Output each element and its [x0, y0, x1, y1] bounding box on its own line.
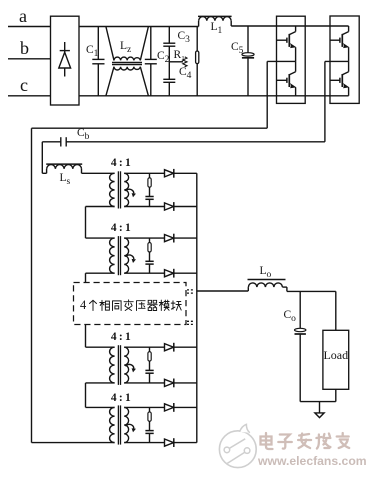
transistor Q3 (U2 top IGBT) — [330, 26, 349, 61]
choke Lz core — [112, 63, 142, 65]
wire T2 secondary top lead — [124, 237, 164, 239]
label Load — [323, 349, 348, 361]
wire return top edge — [32, 127, 268, 129]
dashed stub to bus (upper) — [187, 290, 195, 293]
transistor Q4 (U2 bottom IGBT) — [330, 61, 349, 95]
label C3 — [178, 31, 190, 46]
snubber capacitor C1s — [145, 197, 153, 207]
label C4 — [179, 67, 191, 82]
transistor Q1 (U1 top IGBT) — [277, 26, 297, 61]
label c — [20, 76, 28, 94]
capacitor C3 — [163, 27, 175, 62]
transformer T4 secondary winding — [124, 407, 128, 442]
node U2 midpoint wire — [325, 60, 349, 62]
snubber resistor R4s — [148, 407, 151, 430]
label a — [19, 7, 27, 25]
transformer T1 secondary winding — [124, 173, 128, 206]
capacitor C2 — [145, 27, 157, 96]
wire Cb line — [66, 141, 325, 143]
wire bus to Lo — [197, 290, 249, 292]
snubber capacitor C2s — [145, 261, 153, 273]
input line c (wire) — [8, 95, 51, 97]
diode D3a (top) — [165, 343, 197, 352]
transistor Q2 (U1 bottom IGBT) — [277, 61, 297, 95]
wire T1 secondary top lead — [124, 172, 164, 174]
label 4:1 — [111, 332, 131, 344]
transformer T2 center-tap arrow — [125, 255, 136, 263]
capacitor C1 — [92, 27, 104, 96]
inductor Ls — [42, 164, 82, 173]
node U1 midpoint wire — [267, 60, 295, 62]
transformer T2 primary winding — [110, 238, 115, 273]
wire load bottom — [300, 401, 336, 403]
wire rectified bus — [196, 173, 198, 442]
transformer T1 center-tap arrow — [125, 189, 136, 197]
wire top rail (rectifier to L1) — [79, 26, 199, 28]
inverter leg module U2 box — [330, 16, 359, 103]
transformer T4 primary winding — [110, 407, 115, 442]
label C2 — [157, 51, 169, 66]
bridge rectifier box — [51, 16, 80, 105]
wire T2 secondary bottom lead — [124, 272, 164, 274]
wire bottom rail — [79, 95, 349, 97]
label 4:1 — [111, 393, 131, 405]
inductor Lo — [248, 280, 287, 292]
transformer T3 core — [118, 345, 120, 385]
label Lo — [260, 266, 272, 281]
transformer T4 center-tap arrow — [125, 424, 136, 432]
snubber resistor R1s — [148, 173, 151, 196]
label Co — [284, 310, 296, 325]
wire top rail (L1 to inverter) — [248, 25, 349, 27]
wire T2 primary to module box — [86, 273, 115, 282]
input line a (wire) — [8, 26, 51, 28]
transformer T3 center-tap arrow — [125, 364, 136, 372]
resistor R1 — [169, 57, 187, 67]
label www.elecfans.com — [258, 455, 367, 467]
diode D1b (bottom) — [165, 202, 197, 211]
inductor L1 — [198, 16, 248, 26]
wire module box to T3 — [86, 325, 115, 348]
rectifier diode symbol — [59, 42, 71, 77]
wire Ls to T1 — [82, 172, 115, 174]
wire T3 secondary bottom lead — [124, 382, 164, 384]
snubber resistor R3s — [148, 347, 151, 370]
ground — [315, 402, 324, 418]
transformer T4 core — [118, 405, 120, 444]
dashed box: 4 identical transformer modules — [74, 283, 187, 325]
input line b (wire) — [8, 58, 51, 60]
label 4:1 — [111, 158, 131, 170]
wire T1 secondary bottom lead — [124, 206, 164, 208]
label L1 — [211, 22, 223, 37]
dashed stub to bus (lower) — [187, 321, 195, 324]
wire U2 midpoint drop — [324, 61, 326, 141]
wire Cb to Ls — [41, 142, 43, 174]
choke Lz bottom winding — [106, 67, 148, 96]
inverter leg module U1 box — [277, 16, 306, 103]
capacitor Cb — [42, 137, 66, 146]
transformer T1 primary winding — [110, 173, 115, 206]
label 4:1 — [111, 223, 131, 235]
capacitor Co — [295, 291, 306, 401]
watermark logo circle — [219, 424, 256, 467]
label b — [20, 39, 29, 57]
label: 4 identical transformer modules (CJK) — [90, 300, 182, 311]
wire T3-T4 primary link — [86, 383, 115, 408]
capacitor C5 — [242, 26, 254, 96]
diode D2a (top) — [165, 234, 197, 243]
transformer T3 primary winding — [110, 347, 115, 383]
capacitor C4 — [163, 62, 175, 96]
label Cb — [77, 128, 89, 143]
wire T1-T2 primary link — [86, 207, 115, 239]
transformer T1 core — [118, 171, 120, 208]
label R1 — [174, 50, 185, 63]
snubber capacitor C4s — [145, 431, 153, 443]
wire Lo to load — [287, 290, 336, 292]
label C5 — [231, 42, 243, 57]
transformer T2 core — [118, 236, 120, 275]
wire return bottom edge — [32, 442, 115, 444]
wire U1 midpoint drop — [266, 61, 268, 128]
diode D4a (top) — [165, 403, 197, 412]
snubber capacitor C3s — [145, 370, 153, 383]
wire T3 secondary top lead — [124, 346, 164, 348]
label 4 — [80, 299, 86, 312]
transformer T2 secondary winding — [124, 238, 128, 273]
snubber resistor R2s — [148, 238, 151, 261]
label Ls — [60, 173, 71, 188]
label Lz — [120, 41, 131, 56]
diode D1a (top) — [165, 169, 197, 178]
watermark text: electronics fans (CJK) — [261, 433, 350, 449]
choke Lz top winding — [106, 27, 148, 61]
wire return left edge — [31, 128, 33, 442]
load resistor (Load) — [323, 291, 349, 401]
diode D3b (bottom) — [165, 379, 197, 388]
diode D4b (bottom) — [165, 438, 197, 447]
transformer T3 secondary winding — [124, 347, 128, 383]
diode D2b (bottom) — [165, 269, 197, 278]
label C1 — [86, 45, 98, 60]
branch with fuse F1 — [196, 27, 199, 96]
wire T4 secondary top lead — [124, 406, 164, 408]
wire T4 secondary bottom lead — [124, 442, 164, 444]
